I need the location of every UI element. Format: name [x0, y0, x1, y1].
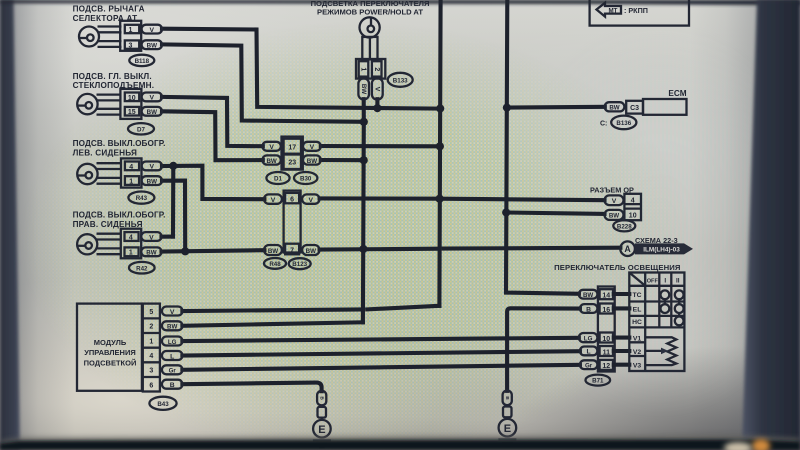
connector designator B43	[149, 397, 176, 410]
wire D1 right V to vertical440	[321, 144, 440, 148]
value label L B71 pin11	[580, 347, 598, 356]
value label BW razyem pin10	[605, 210, 637, 220]
connector designator B123	[289, 258, 311, 269]
junction bus A with V-net vertical	[436, 104, 444, 112]
wire ECM BW	[507, 105, 605, 110]
rheostat resistor	[645, 337, 676, 365]
connector designator R43	[128, 192, 154, 204]
connector D7 pins 10,15	[120, 89, 141, 119]
connector C3 ECM	[626, 101, 643, 114]
value label LG B71 pin10	[579, 333, 598, 342]
value label BW B71 pin14	[579, 290, 598, 299]
wire R43 V	[162, 164, 173, 168]
value label BW pin1 B133	[358, 78, 369, 99]
junction R48 pin6 V on vertical	[436, 195, 444, 203]
schema banner ILM(LH4)-03	[635, 243, 693, 254]
value label V razyem pin4	[605, 194, 642, 220]
node A circle	[620, 241, 635, 256]
wire node R43V to R48 pin6	[173, 166, 264, 200]
lamp R43	[77, 164, 97, 184]
ground E1	[313, 420, 331, 447]
value label L module pin4	[162, 351, 183, 360]
lamp R42 lead wires	[97, 234, 122, 255]
wire node R43V down to R42 V	[171, 166, 175, 237]
value label Gr module pin3	[162, 365, 183, 374]
value label B B71 pin16	[580, 304, 598, 313]
label block B133 power/hold switch lamp	[311, 0, 430, 16]
value label V pin4	[142, 162, 162, 171]
value label BW pin1	[142, 176, 162, 185]
module B43 pin strip	[143, 304, 160, 392]
junction razyem OP BW on vertical	[502, 208, 510, 216]
ECM box	[643, 99, 687, 115]
module B43 body	[77, 304, 142, 391]
wire B71 pin16 B to ground	[507, 308, 580, 391]
connector designator B133	[388, 73, 413, 87]
label block D7 window switch lamp	[73, 72, 155, 90]
value label V left pin6	[264, 194, 282, 204]
wire module pin5 V to vertical (gap at x363)	[182, 310, 360, 312]
wire D1 right BW to vertical364	[321, 158, 364, 162]
connector designator R48	[264, 258, 286, 269]
lamp B133 lead wires	[362, 37, 377, 60]
switch contacts circles	[661, 290, 684, 325]
bottom bezel	[0, 436, 800, 450]
wire stubs B71 pins to switch	[614, 294, 630, 365]
junction R43 BW with R42 BW	[181, 247, 189, 255]
value label V right pin6	[302, 194, 319, 204]
lamp R43 lead wires	[97, 163, 122, 184]
connector D1/B30 pins 17,23	[282, 137, 303, 170]
connector designator C:B136	[600, 116, 636, 130]
junction R48 pin7 BW on vertical	[359, 245, 367, 253]
junction ECM branch on BW-net vertical	[503, 104, 511, 112]
orange light spot	[752, 439, 770, 450]
connector designator B118	[129, 55, 154, 66]
value label V pin4 R42	[141, 232, 161, 241]
value label BW pin15	[142, 107, 162, 116]
wire vertical BW net x506 upper	[506, 0, 579, 294]
lamp B118 lead wires	[98, 27, 122, 47]
wire vertical BW net x364	[361, 122, 366, 322]
wire R42 BW to R48 pin7	[162, 250, 265, 251]
wire module B to ground	[182, 383, 321, 392]
label block B118 selector lamp	[73, 4, 145, 23]
light switch table	[629, 273, 684, 372]
value label LG module pin1	[162, 337, 183, 346]
value label BW module pin2	[162, 321, 183, 330]
lamp B133	[360, 17, 380, 37]
value label BW left pin23	[262, 155, 280, 164]
connector designator D7	[128, 123, 154, 134]
wire razyem OP pin10 BW	[506, 213, 604, 214]
top bezel	[0, 0, 800, 5]
connector designator R42	[129, 262, 155, 274]
value label BW right pin7	[302, 245, 319, 255]
wire vertical V net x440	[439, 0, 440, 306]
MT RKPP note box	[590, 0, 689, 26]
wire R48 right BW to schema banner (gap at x440)	[320, 247, 438, 252]
right bezel	[742, 0, 800, 450]
wire module LG to B71	[182, 338, 578, 341]
lamp B118	[79, 27, 99, 47]
value label BW pin1 R42	[141, 247, 161, 256]
value label BW pin3	[142, 40, 162, 49]
junction bus B with B133-BW	[360, 118, 368, 126]
label block R43 left seat heater lamp	[73, 139, 166, 157]
connector designator B30	[294, 172, 317, 184]
ground E2	[498, 419, 516, 446]
value label V pin2 B133	[372, 78, 383, 99]
value label B module pin6	[162, 380, 183, 389]
junction B133-V on bus A	[373, 104, 381, 112]
wire B133 V pin down to bus A	[375, 99, 379, 108]
wire module pin2 BW to vertical	[182, 322, 363, 326]
junction D1 pin17 V on vertical	[436, 142, 444, 150]
value label V module pin5	[162, 307, 183, 316]
value label Gr B71 pin12	[580, 360, 598, 369]
connector R43 pins 4,1	[121, 158, 142, 187]
value label V pin1	[142, 25, 162, 34]
wire B133 BW pin down	[362, 99, 366, 122]
wire razyem OP pin4 V	[440, 199, 605, 201]
connector B118 pins 1,3	[120, 21, 141, 51]
wire R48 right V to vertical440	[320, 196, 440, 200]
value label V right pin17	[303, 142, 321, 151]
junction D1 pin23 BW on vertical	[360, 156, 368, 164]
wire module L to B71	[182, 351, 580, 355]
splice B ground2	[503, 391, 512, 420]
connector R42 pins 4,1	[121, 229, 141, 259]
connector designator B228	[613, 220, 635, 231]
value label V pin10	[142, 93, 162, 102]
wire B118 V to bus A	[162, 29, 440, 109]
left bezel	[0, 0, 20, 450]
label block R42 right seat heater lamp	[73, 211, 166, 229]
connector designator D1	[266, 172, 289, 184]
wire D7 V to connector D1	[162, 97, 263, 146]
value label BW left pin7	[264, 245, 282, 255]
lamp D7	[77, 94, 97, 114]
connector B71 pin strip	[598, 287, 615, 372]
lamp D7 lead wires	[97, 95, 122, 115]
junction R43 V branch	[169, 162, 177, 170]
wire module Gr to B71	[182, 365, 580, 370]
splice B ground1	[317, 391, 326, 420]
connector R48/B123 pins 6,7	[284, 191, 301, 255]
wire R43 BW down	[162, 181, 185, 252]
value label BW right pin23	[303, 155, 321, 164]
connector B133 pins 1,2	[356, 59, 385, 79]
value label V left pin17	[262, 142, 280, 151]
wire B118 BW to bus B	[162, 44, 364, 121]
connector designator B71	[586, 375, 611, 386]
wire D7 BW to connector D1	[162, 111, 263, 160]
lamp R42	[77, 234, 97, 254]
value label BW ECM	[605, 102, 625, 111]
wire R42 V	[162, 235, 174, 239]
